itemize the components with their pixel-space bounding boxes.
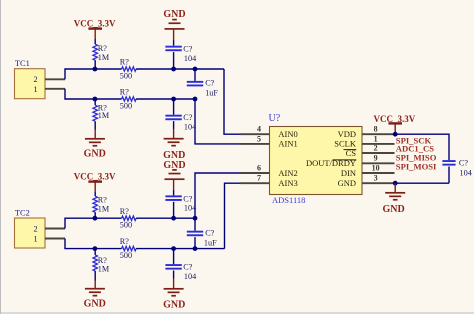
svg-text:500: 500 xyxy=(120,220,132,229)
svg-text:R?: R? xyxy=(120,58,129,67)
ground GND (below TC2 1M) xyxy=(85,288,105,290)
junction rail A at C104 xyxy=(171,67,176,72)
svg-text:GND: GND xyxy=(163,300,185,311)
junction rail D at C1uF xyxy=(193,246,198,251)
junction rail B at C1uF xyxy=(193,97,198,102)
svg-text:VDD: VDD xyxy=(338,129,356,139)
svg-text:104: 104 xyxy=(184,54,196,63)
pin 4 stub (left) xyxy=(241,133,270,135)
wire rail C right segment xyxy=(136,217,195,219)
wire AIN2 pin to rail C xyxy=(195,173,241,218)
svg-text:C?: C? xyxy=(183,45,192,54)
svg-text:1: 1 xyxy=(34,85,38,94)
wire 1M to rail C xyxy=(94,212,96,218)
svg-text:C?: C? xyxy=(205,228,214,237)
ground GND (below TC2 mid C104) xyxy=(164,288,184,290)
svg-text:104: 104 xyxy=(460,169,472,178)
svg-text:AIN3: AIN3 xyxy=(278,178,297,188)
pin 9 stub (right) xyxy=(362,162,395,164)
wire TC1 pin2 up to rail A xyxy=(65,69,122,79)
svg-text:5: 5 xyxy=(257,134,261,143)
resistor R? 1M (TC1 lower) xyxy=(94,99,96,105)
svg-text:2: 2 xyxy=(34,75,38,84)
svg-text:C?: C? xyxy=(183,194,192,203)
svg-text:1uF: 1uF xyxy=(205,89,218,98)
svg-text:DIN: DIN xyxy=(341,168,356,178)
svg-text:500: 500 xyxy=(120,71,132,80)
svg-text:1: 1 xyxy=(374,134,378,143)
svg-text:1M: 1M xyxy=(98,53,110,62)
pin 5 stub (left) xyxy=(241,143,270,145)
wire 1M to GND (TC1) xyxy=(94,121,96,129)
wire 1M to GND (TC2) xyxy=(94,271,96,281)
junction GND node xyxy=(393,181,398,186)
op-amp U1 ADS1118 body xyxy=(270,127,363,195)
svg-text:1uF: 1uF xyxy=(204,238,217,247)
svg-text:GND: GND xyxy=(382,204,404,215)
ground GND (IC) xyxy=(394,183,396,193)
pin 1 stub TC2 xyxy=(45,238,65,240)
svg-text:R?: R? xyxy=(120,237,129,246)
svg-text:TC2: TC2 xyxy=(15,209,30,218)
pin 8 stub (right) xyxy=(362,133,395,135)
svg-text:7: 7 xyxy=(257,174,261,183)
svg-text:1M: 1M xyxy=(98,111,110,120)
svg-text:6: 6 xyxy=(257,163,261,172)
pin 6 stub (left) xyxy=(241,172,270,174)
svg-text:10: 10 xyxy=(372,163,380,172)
svg-text:4: 4 xyxy=(257,125,261,134)
capacitor C? 104 (TC2 top) xyxy=(165,195,181,197)
resistor R? 1M (TC2 lower) xyxy=(94,249,96,255)
resistor R? 500 (rail B) xyxy=(122,97,137,101)
junction rail C at R1M xyxy=(93,216,98,221)
wire 1M to rail A xyxy=(94,60,96,69)
svg-text:SPI_MOSI: SPI_MOSI xyxy=(396,161,437,171)
svg-text:R?: R? xyxy=(98,196,107,205)
pin 1 stub TC1 xyxy=(45,88,65,90)
svg-text:C?: C? xyxy=(205,79,214,88)
wire TC2 pin2 up to rail C xyxy=(65,218,122,228)
svg-text:C?: C? xyxy=(183,263,192,272)
resistor R? 500 (rail A) xyxy=(122,67,137,71)
svg-text:C?: C? xyxy=(459,159,468,168)
resistor R? 1M (TC2 upper) xyxy=(93,196,97,212)
svg-text:2: 2 xyxy=(374,143,378,152)
resistor R? 500 (rail D) xyxy=(122,246,137,250)
svg-text:8: 8 xyxy=(374,125,378,134)
svg-text:2: 2 xyxy=(34,224,38,233)
wire VDD rail to C104 xyxy=(395,134,450,160)
capacitor C? 1uF (TC2) xyxy=(194,218,196,231)
pin 2 stub TC2 xyxy=(45,228,65,230)
wire rail A down to AIN0 pin xyxy=(224,69,241,134)
capacitor C? 104 (TC1 bottom) xyxy=(173,99,175,115)
wire rail D right segment xyxy=(136,248,224,250)
svg-text:1: 1 xyxy=(34,234,38,243)
svg-text:500: 500 xyxy=(120,101,132,110)
svg-text:TC1: TC1 xyxy=(15,59,30,68)
svg-text:U?: U? xyxy=(269,113,281,124)
wire C104 to rail A xyxy=(173,52,175,69)
pin 10 stub (right) xyxy=(362,172,395,174)
svg-text:ADS1118: ADS1118 xyxy=(272,195,305,205)
junction rail C at C104 xyxy=(171,216,176,221)
capacitor C? 104 (TC1 top) xyxy=(165,46,181,48)
wire GND rail to C104 xyxy=(395,182,450,184)
junction rail C at C1uF xyxy=(193,216,198,221)
pin 7 stub (left) xyxy=(241,182,270,184)
junction rail D at R1M xyxy=(93,246,98,251)
svg-text:R?: R? xyxy=(120,88,129,97)
svg-text:R?: R? xyxy=(120,207,129,216)
resistor R? 1M (TC1 upper) xyxy=(93,44,97,60)
svg-text:104: 104 xyxy=(184,272,196,281)
junction rail B at C104 xyxy=(171,97,176,102)
svg-text:GND: GND xyxy=(84,298,106,309)
wire rail A right segment xyxy=(136,68,224,70)
svg-text:GND: GND xyxy=(163,9,185,20)
ground GND (below TC1 mid C104) xyxy=(164,138,184,140)
wire rail B down to AIN1 pin xyxy=(195,99,241,144)
junction rail B at R1M xyxy=(93,97,98,102)
svg-text:VCC_3.3V: VCC_3.3V xyxy=(74,18,116,28)
svg-text:GND: GND xyxy=(338,178,356,188)
svg-text:VCC_3.3V: VCC_3.3V xyxy=(74,171,116,181)
svg-text:AIN1: AIN1 xyxy=(278,139,297,149)
pin 2 stub (right) xyxy=(362,152,395,154)
svg-text:AIN0: AIN0 xyxy=(278,129,297,139)
svg-text:500: 500 xyxy=(120,251,132,260)
wire C104 to GND (TC1 mid) xyxy=(173,121,175,129)
wire rail B right segment xyxy=(136,98,195,100)
ground GND (below TC1 1M) xyxy=(85,138,105,140)
capacitor C? 104 (TC2 bottom) xyxy=(173,249,175,265)
svg-text:104: 104 xyxy=(184,122,196,131)
wire TC2 pin1 down to rail D xyxy=(65,239,122,249)
svg-text:1M: 1M xyxy=(98,264,110,273)
wire TC1 pin1 down to rail B xyxy=(65,89,122,99)
pin 3 stub (right) xyxy=(362,182,395,184)
junction rail A at C1uF xyxy=(193,67,198,72)
wire AIN3 pin to rail D xyxy=(225,183,241,248)
junction rail A at R1M xyxy=(93,67,98,72)
svg-text:9: 9 xyxy=(374,154,378,163)
svg-text:C?: C? xyxy=(183,113,192,122)
capacitor C? 1uF (TC1) xyxy=(194,69,196,81)
connector TC1 xyxy=(15,69,46,99)
svg-text:GND: GND xyxy=(84,148,106,159)
svg-text:AIN2: AIN2 xyxy=(278,168,297,178)
connector TC2 xyxy=(15,218,46,248)
junction VDD node xyxy=(393,132,398,137)
junction rail D at C104 xyxy=(171,246,176,251)
wire C104 to GND (TC2 mid) xyxy=(173,271,175,279)
resistor R? 500 (rail C) xyxy=(122,216,137,220)
pin 2 stub TC1 xyxy=(45,78,65,80)
wire C104 to rail C xyxy=(173,202,175,218)
capacitor C? 104 (IC decoupling) xyxy=(442,160,455,162)
pin 1 stub (right) xyxy=(362,143,395,145)
svg-text:3: 3 xyxy=(374,174,378,183)
svg-text:1M: 1M xyxy=(98,204,110,213)
